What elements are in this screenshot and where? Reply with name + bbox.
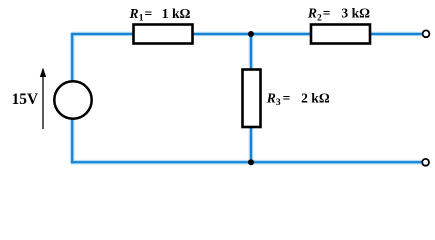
wire top horizontal	[71, 33, 421, 35]
svg-text:=: =	[145, 6, 153, 21]
resistor R2	[311, 25, 370, 44]
polarity arrow	[40, 68, 46, 130]
svg-text:R: R	[266, 90, 276, 105]
svg-text:2: 2	[317, 14, 322, 24]
voltage source V1	[54, 81, 91, 118]
wire bottom horizontal	[71, 161, 422, 163]
wire left vertical	[71, 33, 73, 164]
svg-text:3 kΩ: 3 kΩ	[341, 6, 370, 21]
svg-text:3: 3	[276, 98, 281, 108]
svg-text:1 kΩ: 1 kΩ	[162, 6, 191, 21]
label R1 value	[129, 6, 191, 24]
terminal top right	[423, 30, 430, 37]
label R2 value	[307, 6, 370, 24]
svg-text:=: =	[323, 6, 331, 21]
wire glow	[71, 33, 422, 164]
svg-text:=: =	[283, 90, 291, 105]
svg-text:2 kΩ: 2 kΩ	[301, 90, 330, 105]
svg-text:R: R	[307, 6, 317, 21]
terminal bottom right	[422, 159, 429, 166]
wire R3 vertical	[250, 34, 252, 162]
node junction top	[248, 31, 254, 37]
resistor R1	[134, 25, 193, 44]
node junction bottom	[248, 159, 254, 165]
svg-text:R: R	[129, 6, 139, 21]
svg-text:1: 1	[139, 14, 144, 24]
svg-text:15V: 15V	[12, 91, 39, 108]
resistor R3	[243, 70, 261, 128]
label R3 value	[266, 90, 330, 108]
